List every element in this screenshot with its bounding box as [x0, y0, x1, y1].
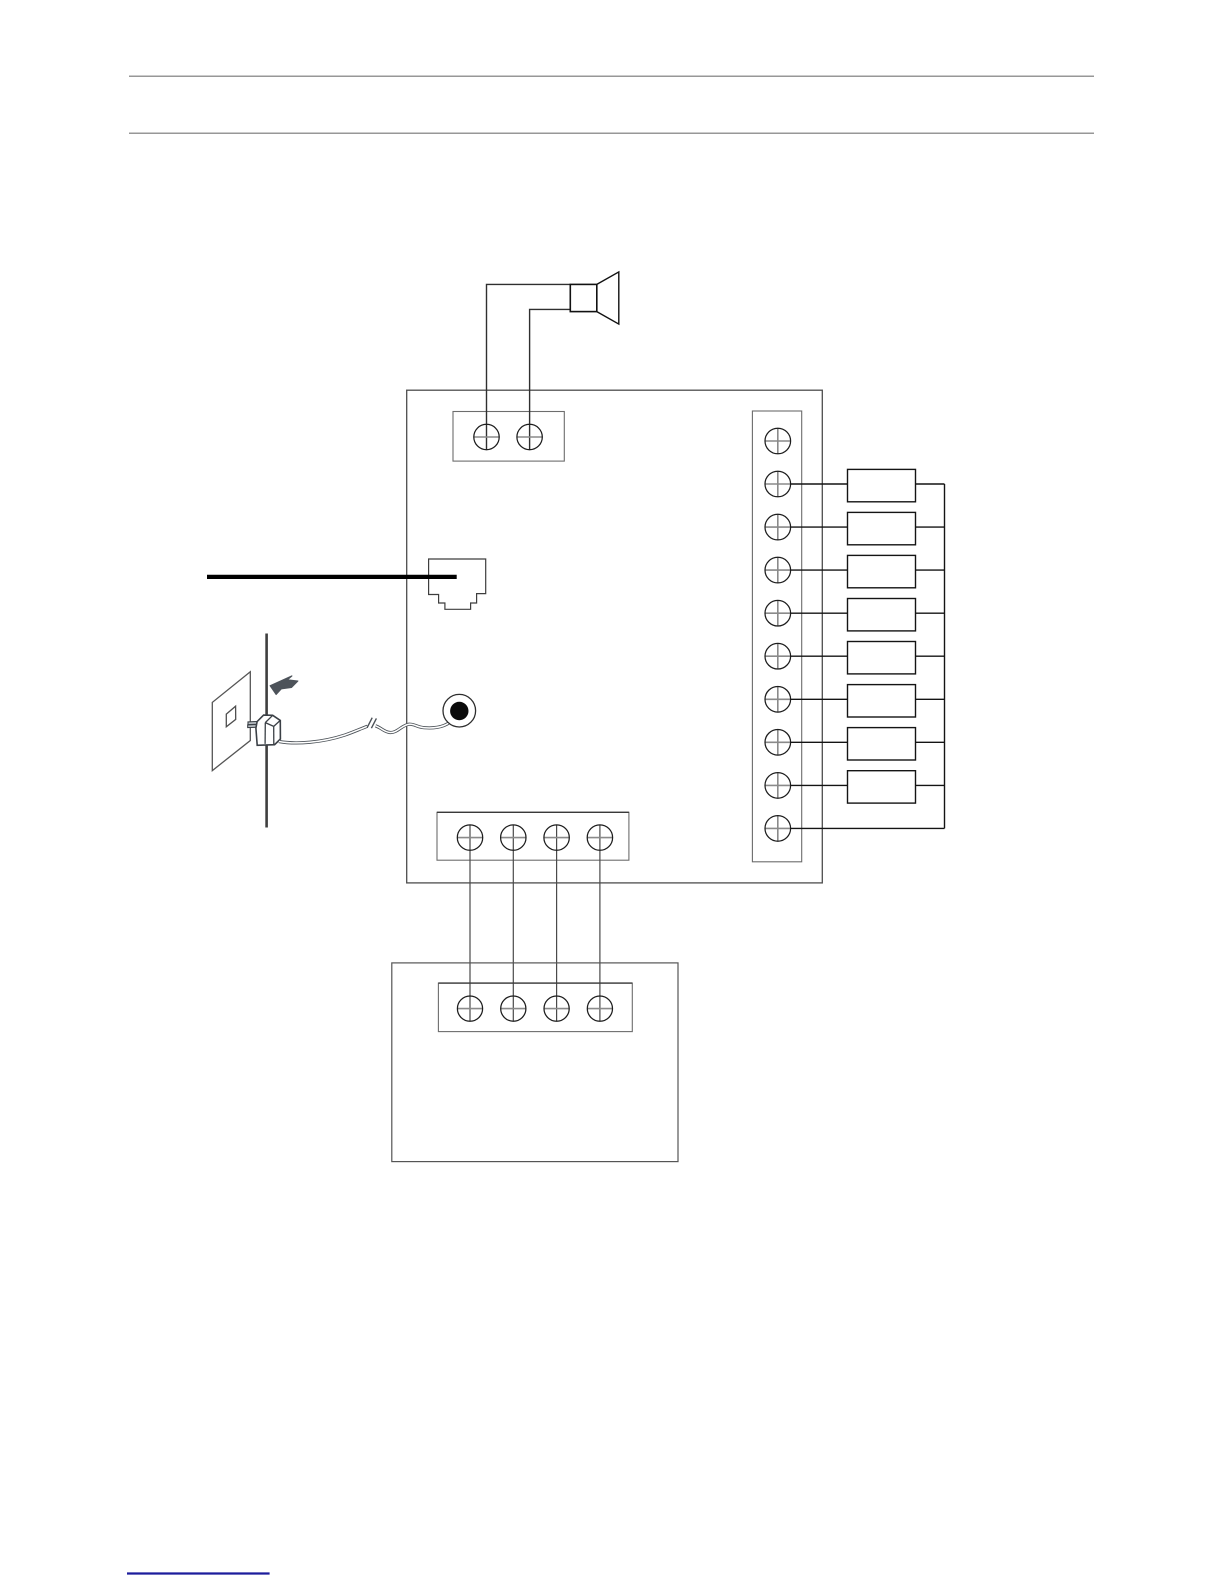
keypad wire 3	[556, 825, 558, 1021]
wire speaker + (left)	[487, 284, 571, 449]
bus return wire from Z10	[791, 827, 945, 829]
screw terminal Z6	[765, 643, 791, 669]
screw terminal Z5	[765, 600, 791, 626]
keypad wire 1	[469, 825, 471, 1021]
common bus wire	[944, 484, 946, 828]
power cord	[279, 717, 455, 743]
resistor R6 with leads	[791, 685, 945, 717]
speaker driver box	[570, 284, 597, 311]
screw terminal KP2	[501, 996, 526, 1021]
plug prongs	[248, 722, 258, 728]
screw terminal KP4	[587, 996, 612, 1021]
power jack on board	[443, 694, 476, 727]
screw terminal KB4	[587, 825, 612, 850]
keypad wire 2	[512, 825, 514, 1021]
screw terminal KB1	[457, 825, 482, 850]
speaker terminal block	[453, 412, 564, 462]
arrow pointer	[270, 676, 298, 695]
screw terminal Z8	[765, 730, 791, 756]
wall outlet plate	[212, 672, 250, 771]
screw terminal Z3	[765, 514, 791, 540]
header rule top	[129, 75, 1094, 77]
screw terminal KP3	[544, 996, 569, 1021]
phone line (thick)	[207, 575, 457, 579]
resistor R5 with leads	[791, 642, 945, 674]
wire speaker - (right)	[530, 309, 571, 449]
cord break marks	[367, 718, 376, 729]
screw terminal SPK2	[517, 424, 543, 449]
screw terminal Z1	[765, 428, 791, 454]
RJ phone jack	[429, 559, 486, 609]
speaker horn	[597, 272, 619, 324]
outlet hole	[226, 706, 235, 727]
screw terminal SPK1	[473, 424, 499, 449]
screw terminal KB3	[544, 825, 569, 850]
screw terminal Z7	[765, 687, 791, 713]
screw terminal Z10	[765, 816, 791, 842]
keypad terminal block	[438, 983, 632, 1032]
resistor R8 with leads	[791, 771, 945, 803]
main control panel board outline	[407, 390, 823, 883]
wall line	[265, 634, 268, 828]
screw terminal KP1	[457, 996, 482, 1021]
resistor R7 with leads	[791, 728, 945, 760]
footer rule (blue)	[127, 1572, 270, 1574]
keypad box	[392, 963, 678, 1162]
zone terminal strip	[752, 411, 801, 862]
screw terminal Z2	[765, 471, 791, 497]
resistor R1 with leads	[791, 469, 945, 501]
resistor R3 with leads	[791, 555, 945, 587]
keypad bus terminal block (on board)	[437, 812, 629, 860]
screw terminal Z9	[765, 773, 791, 799]
resistor R4 with leads	[791, 599, 945, 631]
screw terminal KB2	[501, 825, 526, 850]
header rule bottom	[129, 132, 1094, 134]
keypad wire 4	[599, 825, 601, 1021]
screw terminal Z4	[765, 557, 791, 583]
resistor R2 with leads	[791, 512, 945, 544]
plug adapter box	[256, 715, 281, 745]
